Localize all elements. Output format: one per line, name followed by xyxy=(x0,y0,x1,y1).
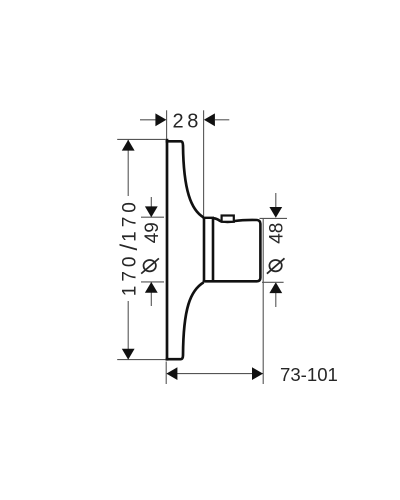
tick bottom of plate (170 dim) xyxy=(117,359,165,361)
dim 73-101 left arrowhead xyxy=(166,367,177,380)
diameter symbol for 49 (slash) xyxy=(141,258,159,273)
tick diameter 49 top xyxy=(141,216,164,218)
dim diameter 49 lower segment xyxy=(150,282,152,306)
escutcheon top edge and upper trumpet curve xyxy=(166,141,204,217)
neck ring top edge xyxy=(203,217,214,219)
neck ring left vertical xyxy=(203,218,206,282)
dim diameter 48 lower segment xyxy=(275,293,277,307)
extension line right of knob (73-101 dim) xyxy=(262,219,264,385)
handle grip tab xyxy=(222,216,234,222)
dim diameter 48 upper segment xyxy=(275,193,277,208)
svg-text:48: 48 xyxy=(267,223,288,244)
dim 73-101 line xyxy=(167,373,263,375)
dim 170/170 line lower segment xyxy=(127,301,129,359)
neck ring right vertical xyxy=(212,218,215,281)
dim diameter 49 upper arrowhead (down) xyxy=(145,206,158,217)
tick diameter 49 bottom xyxy=(141,281,164,283)
dim diameter 49 upper segment xyxy=(150,197,152,217)
dim 170/170 bottom arrowhead xyxy=(122,349,135,360)
escutcheon plate face (wall side vertical) xyxy=(166,139,169,361)
tick diameter 48 bottom xyxy=(262,281,284,283)
handle knob body silhouette xyxy=(203,218,261,281)
diameter symbol for 48 (slash) xyxy=(267,258,285,273)
extension line B (right of 28 dim, down to neck) xyxy=(203,110,205,216)
tick diameter 48 top xyxy=(260,217,288,219)
svg-text:49: 49 xyxy=(142,222,163,243)
dim diameter 49 lower arrowhead (up) xyxy=(145,282,158,293)
extension line A below plate (73-101 dim left) xyxy=(165,362,167,385)
dim 28 right tail xyxy=(215,119,229,121)
dim 28 right arrowhead xyxy=(204,113,215,126)
dim 170/170 line upper segment xyxy=(127,140,129,196)
dim 28 left tail xyxy=(140,119,157,121)
diameter symbol for 48 (circle) xyxy=(269,260,281,271)
svg-text:170/170: 170/170 xyxy=(116,198,143,296)
dim diameter 48 upper arrowhead (down) xyxy=(269,207,282,218)
svg-text:28: 28 xyxy=(172,111,201,133)
tick top of plate (170 dim) xyxy=(117,138,165,140)
dim diameter 48 lower arrowhead (up) xyxy=(269,282,282,293)
dim 170/170 top arrowhead xyxy=(122,140,135,151)
dim 28 left arrowhead xyxy=(155,113,166,126)
escutcheon bottom edge and lower trumpet curve xyxy=(166,282,204,359)
diameter symbol for 49 (circle) xyxy=(144,260,156,271)
extension line A above plate (left of 28 dim) xyxy=(166,110,168,139)
dim 73-101 right arrowhead xyxy=(252,367,263,380)
svg-text:73-101: 73-101 xyxy=(280,364,338,385)
